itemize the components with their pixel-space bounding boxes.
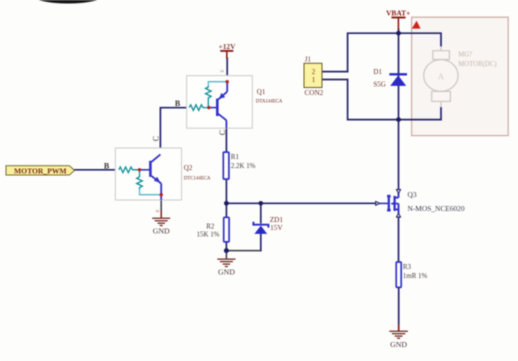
svg-text:GND: GND: [153, 227, 170, 236]
svg-text:MOTOR(DC): MOTOR(DC): [458, 61, 496, 68]
svg-text:N-MOS_NCE6020: N-MOS_NCE6020: [408, 204, 465, 213]
svg-text:J1: J1: [305, 56, 312, 64]
svg-text:R3: R3: [403, 264, 412, 271]
svg-text:C: C: [152, 136, 161, 141]
svg-text:Q1: Q1: [257, 88, 266, 96]
svg-text:CON2: CON2: [305, 89, 324, 97]
svg-text:MG?: MG?: [458, 52, 472, 59]
svg-text:GND: GND: [390, 340, 407, 349]
svg-text:Q2: Q2: [184, 164, 193, 172]
svg-text:VBAT+: VBAT+: [386, 8, 410, 17]
svg-text:R2: R2: [206, 224, 215, 231]
svg-text:1mR 1%: 1mR 1%: [403, 273, 428, 280]
svg-text:15V: 15V: [270, 223, 283, 232]
svg-text:A: A: [438, 72, 444, 81]
svg-text:B: B: [175, 99, 181, 108]
svg-text:+12V: +12V: [219, 42, 237, 51]
svg-text:15K 1%: 15K 1%: [197, 232, 220, 239]
svg-text:2: 2: [312, 68, 316, 76]
svg-text:GND: GND: [218, 268, 235, 277]
svg-text:S5G: S5G: [373, 81, 385, 89]
svg-text:DTC144ECA: DTC144ECA: [184, 176, 211, 181]
svg-text:MOTOR_PWM: MOTOR_PWM: [14, 167, 67, 176]
svg-text:E: E: [219, 69, 224, 72]
svg-text:Q3: Q3: [408, 190, 417, 199]
svg-text:1: 1: [312, 76, 316, 84]
svg-text:DTA144ECA: DTA144ECA: [256, 99, 283, 104]
svg-text:C: C: [218, 130, 227, 135]
svg-text:R1: R1: [231, 154, 240, 161]
svg-text:2.2K 1%: 2.2K 1%: [231, 163, 256, 170]
svg-text:B: B: [104, 162, 110, 171]
svg-text:E: E: [155, 209, 160, 212]
svg-text:D1: D1: [373, 68, 382, 76]
